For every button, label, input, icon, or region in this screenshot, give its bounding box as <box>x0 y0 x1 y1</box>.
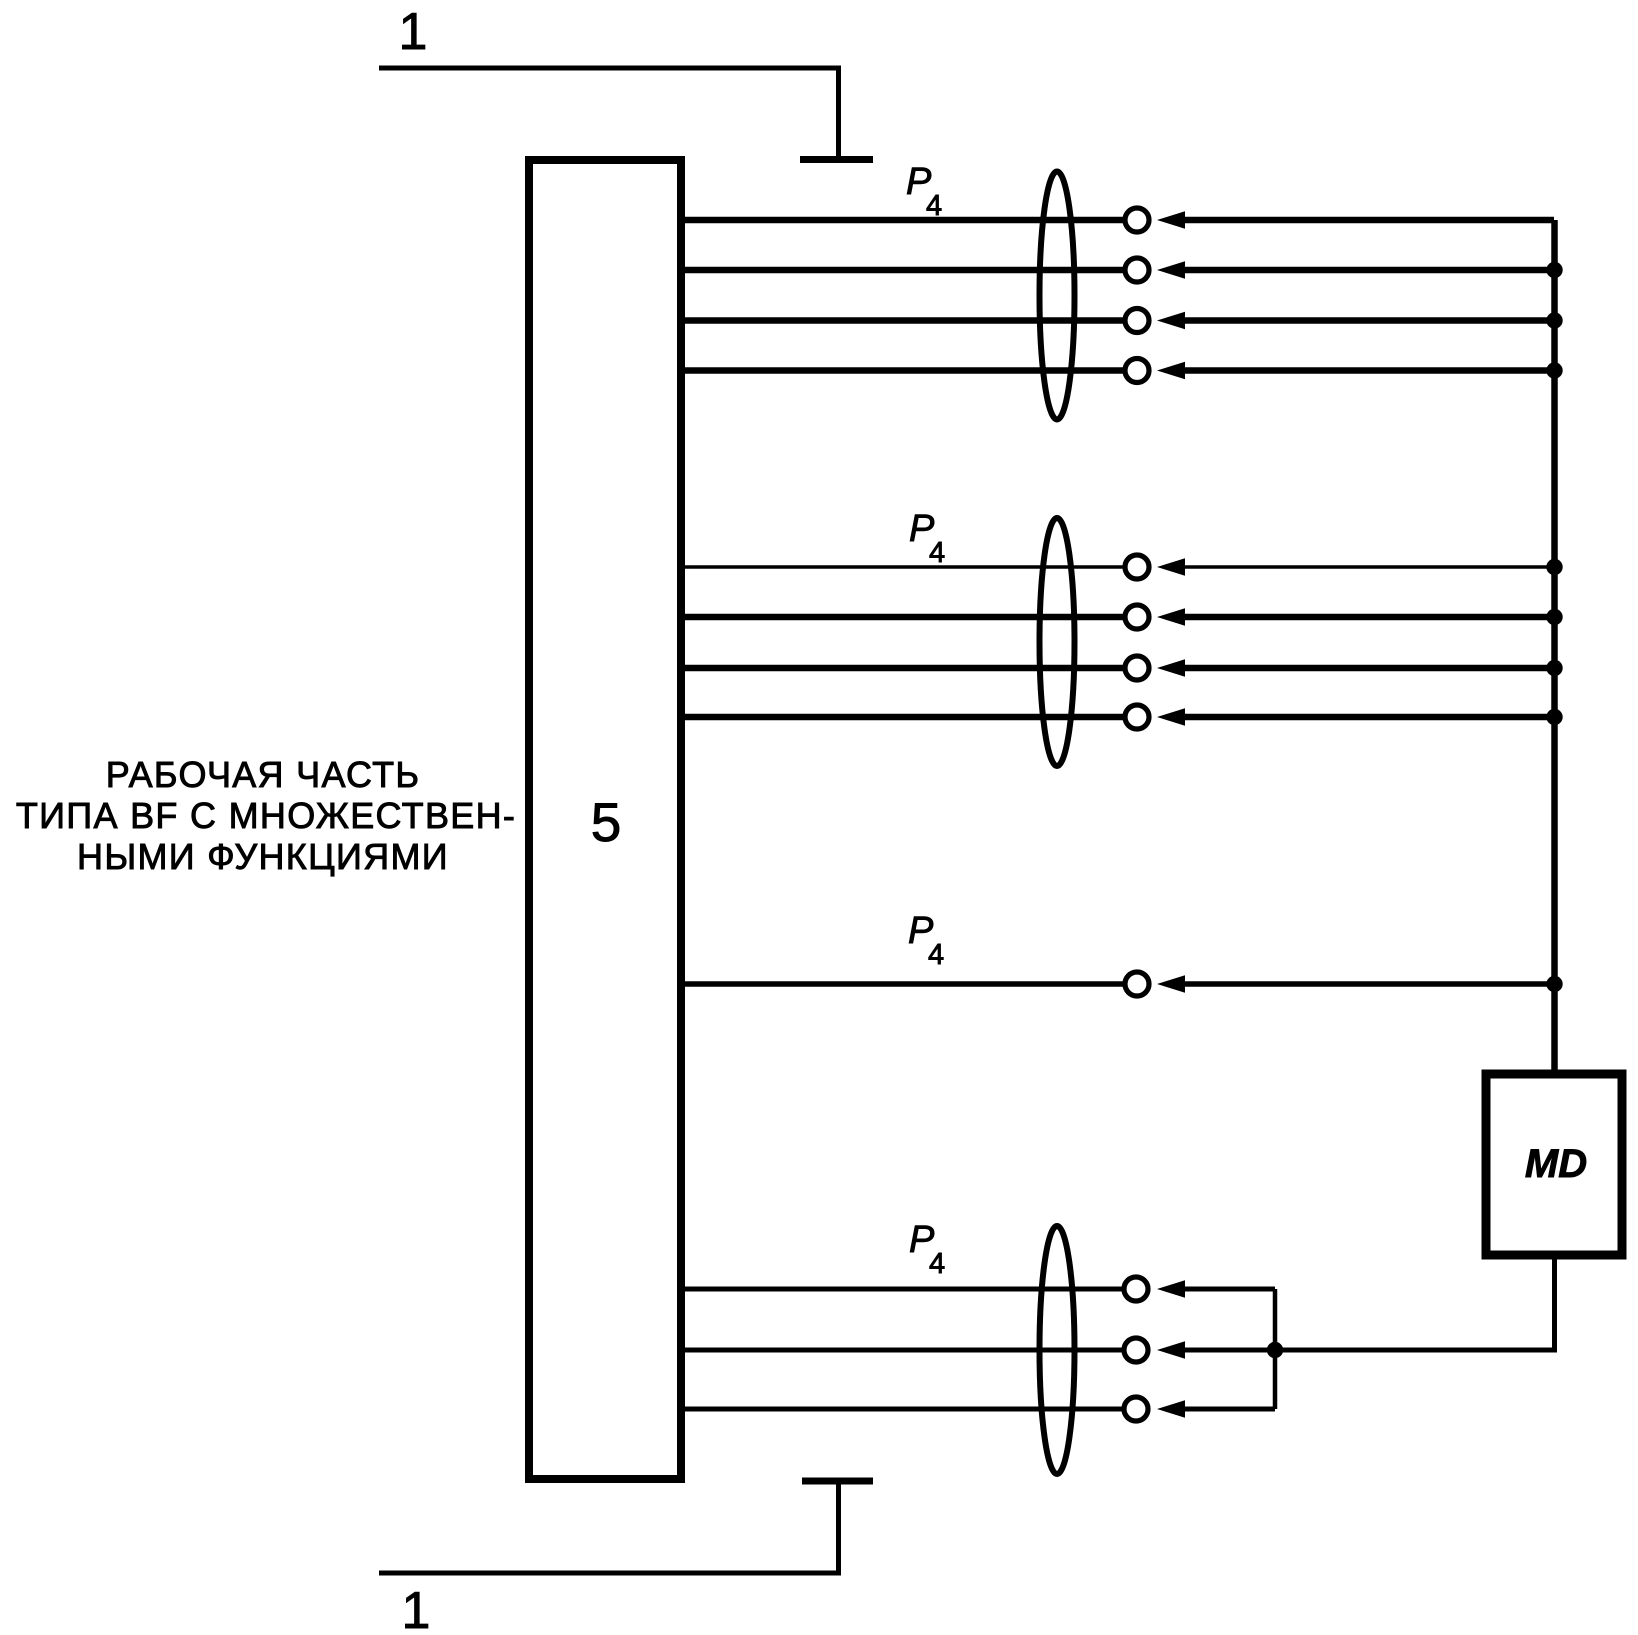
arrowhead, group 1 lead 1 <box>1157 211 1185 229</box>
junction dot group 3 at bus y=984 <box>1546 976 1562 992</box>
svg-text:ТИПА BF С МНОЖЕСТВЕН-: ТИПА BF С МНОЖЕСТВЕН- <box>16 795 516 836</box>
arrowhead, group 2 lead 3 <box>1157 659 1185 677</box>
wire: group 4 lead 3 (left segment) <box>681 1407 1125 1412</box>
svg-text:1: 1 <box>399 3 428 61</box>
wire: main vertical bus to MD (upper) <box>1551 220 1558 1072</box>
arrowhead, group 2 lead 2 <box>1157 608 1185 626</box>
arrowhead, group 2 lead 1 <box>1157 558 1185 576</box>
wire: group 3 lead 1 (left segment) <box>681 981 1125 987</box>
junction dot group 4 local bus at y=1350 <box>1267 1342 1283 1358</box>
cable ellipse, group 1 <box>1040 172 1075 420</box>
patient connection circle, group 2 lead 2 <box>1125 605 1149 629</box>
patient connection circle, group 1 lead 1 <box>1125 208 1149 232</box>
wire: group 1 lead 4 (left segment) <box>681 367 1125 374</box>
svg-text:НЫМИ ФУНКЦИЯМИ: НЫМИ ФУНКЦИЯМИ <box>77 836 449 877</box>
wire: group 4 lead 2 (left segment) <box>681 1348 1125 1353</box>
wire: group 4 lead 1 (right segment) <box>1183 1287 1275 1292</box>
arrowhead, group 4 lead 3 <box>1157 1400 1185 1418</box>
cable ellipse, group 2 <box>1040 518 1075 766</box>
patient connection circle, group 4 lead 1 <box>1124 1277 1148 1301</box>
terminal contact bar (bottom) <box>802 1478 873 1485</box>
applied part box 5 <box>529 160 681 1479</box>
cable ellipse, group 4 <box>1040 1226 1075 1474</box>
arrowhead, group 1 lead 2 <box>1157 261 1185 279</box>
wire: group 4 lead 1 (left segment) <box>681 1287 1125 1292</box>
wire: group 1 lead 3 (right segment) <box>1183 317 1554 324</box>
measuring device box MD <box>1486 1074 1622 1255</box>
patient connection circle, group 1 lead 4 <box>1125 359 1149 383</box>
patient connection circle, group 2 lead 3 <box>1125 656 1149 680</box>
svg-text:4: 4 <box>929 1248 945 1280</box>
patient connection circle, group 2 lead 4 <box>1125 705 1149 729</box>
wire: bus from MD bottom down and left to group 4 <box>1275 1258 1555 1350</box>
wire: group 4 local bus <box>1273 1289 1278 1409</box>
patient connection circle, group 4 lead 3 <box>1124 1397 1148 1421</box>
svg-text:4: 4 <box>929 537 945 569</box>
terminal contact bar (top) <box>800 156 873 163</box>
svg-text:MD: MD <box>1525 1142 1587 1186</box>
wire: group 4 lead 2 (right segment) <box>1183 1348 1275 1353</box>
wire: group 2 lead 3 (right segment) <box>1183 665 1554 672</box>
wire: group 2 lead 2 (left segment) <box>681 614 1125 621</box>
arrowhead, group 1 lead 3 <box>1157 312 1185 330</box>
arrowhead, group 4 lead 1 <box>1157 1280 1185 1298</box>
wire: group 3 lead 1 (right segment) <box>1183 981 1554 987</box>
junction dot group 2 at bus y=567 <box>1546 559 1562 575</box>
svg-text:РАБОЧАЯ ЧАСТЬ: РАБОЧАЯ ЧАСТЬ <box>106 754 421 795</box>
wire: group 1 lead 3 (left segment) <box>681 317 1125 324</box>
patient connection circle, group 1 lead 3 <box>1125 309 1149 333</box>
arrowhead, group 2 lead 4 <box>1157 708 1185 726</box>
arrowhead, group 1 lead 4 <box>1157 362 1185 380</box>
wire: group 2 lead 4 (left segment) <box>681 714 1125 721</box>
arrowhead, group 4 lead 2 <box>1157 1341 1185 1359</box>
patient connection circle, group 4 lead 2 <box>1124 1338 1148 1362</box>
wire: top lead from node 1 to terminal <box>379 68 839 158</box>
arrowhead, group 3 lead 1 <box>1157 975 1185 993</box>
wire: group 2 lead 1 (right segment) <box>1183 565 1554 569</box>
junction dot group 2 at bus y=668 <box>1546 660 1562 676</box>
wire: group 1 lead 2 (right segment) <box>1183 267 1554 274</box>
junction dot group 1 at bus y=270 <box>1546 262 1562 278</box>
svg-text:1: 1 <box>402 1582 431 1635</box>
wire: group 2 lead 2 (right segment) <box>1183 614 1554 621</box>
wire: group 1 lead 2 (left segment) <box>681 267 1125 274</box>
wire: group 1 lead 1 (right segment) <box>1183 217 1554 224</box>
junction dot group 2 at bus y=617 <box>1546 609 1562 625</box>
wire: group 2 lead 4 (right segment) <box>1183 714 1554 721</box>
wire: group 4 lead 3 (right segment) <box>1183 1407 1275 1412</box>
wire: group 2 lead 3 (left segment) <box>681 665 1125 672</box>
svg-text:5: 5 <box>591 791 622 853</box>
patient connection circle, group 3 lead 1 <box>1125 972 1149 996</box>
svg-text:4: 4 <box>928 939 944 971</box>
wire: group 1 lead 4 (right segment) <box>1183 367 1554 374</box>
wire: group 2 lead 1 (left segment) <box>681 565 1125 569</box>
wire: group 1 lead 1 (left segment) <box>681 217 1125 224</box>
junction dot group 2 at bus y=717 <box>1546 709 1562 725</box>
junction dot group 1 at bus y=320.5 <box>1546 312 1562 328</box>
patient connection circle, group 2 lead 1 <box>1125 555 1149 579</box>
patient connection circle, group 1 lead 2 <box>1125 258 1149 282</box>
junction dot group 1 at bus y=370.5 <box>1546 362 1562 378</box>
wire: bottom lead from terminal to node 1 <box>379 1484 839 1573</box>
